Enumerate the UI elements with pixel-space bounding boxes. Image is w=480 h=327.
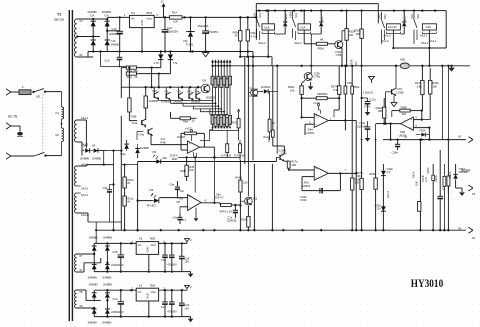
wire zener drop2	[158, 74, 160, 88]
svg-text:4700: 4700	[364, 104, 370, 108]
label C10B	[421, 175, 428, 182]
svg-text:SA2-3: SA2-3	[258, 41, 266, 45]
AC IN label	[8, 115, 18, 119]
resistor bank wires	[211, 60, 231, 116]
resistor R44A	[246, 16, 257, 56]
svg-text:2200/25V: 2200/25V	[167, 30, 178, 34]
vertical bus 244	[244, 57, 246, 164]
svg-text:1K: 1K	[127, 200, 130, 204]
svg-text:SA2: SA2	[377, 14, 381, 19]
svg-text:SA2-3: SA2-3	[294, 41, 302, 45]
svg-text:2N3055: 2N3055	[206, 96, 216, 100]
svg-text:GND: GND	[145, 247, 149, 253]
transistor Y30 2N3055	[149, 87, 159, 103]
diode D-K4A	[400, 11, 407, 34]
svg-text:4/63/25V: 4/63/25V	[208, 30, 219, 34]
relay bracket 1	[258, 31, 274, 45]
ground C17A	[365, 110, 371, 116]
title HY3010	[411, 278, 444, 290]
diode Y63	[102, 255, 112, 280]
svg-text:08: 08	[80, 290, 83, 294]
diode Y8A	[80, 143, 90, 160]
resistor R39A	[354, 11, 363, 141]
capacitor C7A	[227, 205, 238, 223]
svg-text:R59A: R59A	[369, 172, 376, 176]
svg-text:R58A: R58A	[401, 105, 408, 109]
svg-text:TL431: TL431	[186, 43, 194, 47]
resistor R58A 44K	[400, 105, 410, 116]
ground C13A	[365, 136, 371, 142]
AC plug E	[6, 123, 20, 131]
wire Y14A em	[151, 135, 187, 145]
LED Y36 4F-LED	[138, 188, 160, 207]
resistor R24A	[235, 164, 248, 196]
wire R58A net	[392, 109, 423, 117]
svg-text:10K: 10K	[356, 32, 361, 36]
zener Y12A	[120, 140, 129, 156]
transistor Y29A CTM	[335, 41, 343, 57]
wire rail corner 253	[252, 52, 254, 161]
resistor R51A	[231, 109, 240, 140]
zener Y7A	[168, 50, 178, 73]
svg-text:2N3055: 2N3055	[161, 99, 171, 103]
wire K3A top	[303, 9, 305, 23]
switch S01b	[34, 152, 62, 156]
svg-text:57: 57	[80, 268, 83, 272]
svg-text:SA3-1: SA3-1	[421, 41, 429, 45]
svg-text:5: 5	[415, 116, 417, 120]
svg-text:Vout: Vout	[151, 290, 156, 294]
resistor R4A 2K	[126, 72, 138, 79]
svg-text:SA1-1: SA1-1	[81, 116, 89, 120]
svg-text:104: 104	[184, 260, 189, 264]
svg-text:C1368: C1368	[396, 90, 404, 94]
wire K5 gnd	[148, 255, 150, 273]
svg-text:SA3-1: SA3-1	[81, 193, 89, 197]
svg-text:10K: 10K	[356, 174, 361, 178]
diode Y60 2N4880	[89, 236, 99, 255]
primary winding W2	[56, 119, 64, 156]
wire U2B in bot	[413, 124, 430, 129]
svg-text:58: 58	[80, 304, 83, 308]
svg-text:2N3055: 2N3055	[149, 99, 159, 103]
svg-text:F: F	[22, 85, 24, 89]
svg-text:T30B: T30B	[130, 114, 136, 118]
wire rect out	[107, 16, 121, 31]
svg-text:2: 2	[157, 13, 159, 17]
capacitor C17A	[360, 76, 376, 110]
svg-text:R41A: R41A	[411, 171, 415, 178]
diode Y3A	[91, 18, 96, 45]
row1 bottom wire	[94, 270, 190, 272]
wire relay rail C	[393, 47, 446, 49]
svg-text:2N4880: 2N4880	[88, 10, 98, 14]
svg-text:1-K: 1-K	[386, 170, 390, 174]
wire U1A in+	[300, 116, 314, 118]
svg-text:2N4880: 2N4880	[102, 320, 112, 324]
ground U3	[194, 208, 199, 222]
diode D-K3A	[311, 11, 325, 34]
wire K2 gnd	[141, 28, 143, 53]
svg-text:2N4880: 2N4880	[89, 282, 99, 286]
resistor R47A 1.2K	[214, 203, 232, 214]
wire 429 drop	[428, 128, 430, 140]
svg-text:2K: 2K	[134, 75, 137, 79]
secondary winding SB1	[74, 116, 88, 147]
wire bank link	[200, 130, 239, 140]
svg-text:N2: N2	[56, 133, 60, 137]
svg-text:Y28A: Y28A	[289, 11, 293, 18]
svg-text:Vout: Vout	[151, 243, 156, 247]
svg-text:1: 1	[124, 13, 126, 17]
svg-text:C1368: C1368	[249, 94, 257, 98]
op-amp IC30A AMP	[170, 141, 200, 161]
opamp IC30A pins down	[194, 152, 197, 158]
svg-text:1: 1	[330, 116, 332, 120]
switch S01	[32, 89, 46, 99]
relay K3A	[298, 24, 311, 44]
svg-text:4-B1: 4-B1	[400, 58, 406, 62]
capacitor C15	[161, 243, 168, 272]
resistor R52A	[221, 140, 231, 158]
wire rect col1	[92, 19, 94, 53]
svg-text:3: 3	[190, 238, 192, 242]
svg-text:3/4A: 3/4A	[308, 128, 314, 132]
svg-text:R51A: R51A	[231, 121, 238, 125]
relay K2A	[262, 24, 275, 57]
relay bracket 4	[417, 30, 437, 43]
resistor bank row2 bodies	[211, 115, 232, 128]
svg-text:Y50A: Y50A	[419, 129, 426, 133]
wire SB1 taps	[77, 120, 87, 156]
svg-text:LM324: LM324	[306, 131, 314, 135]
svg-text:Vin: Vin	[138, 290, 142, 294]
svg-text:SA3-3: SA3-3	[420, 34, 428, 38]
svg-text:CTM: CTM	[336, 53, 342, 57]
svg-text:2200/2V: 2200/2V	[357, 124, 367, 128]
svg-text:Y20A: Y20A	[320, 16, 324, 23]
row1 top wire	[94, 242, 187, 244]
svg-text:6: 6	[415, 124, 417, 128]
zener Y13A	[135, 144, 149, 158]
diode Y61 2N4880	[103, 236, 113, 255]
svg-text:22000/25V: 22000/25V	[111, 310, 124, 314]
resistor R11A	[144, 86, 147, 117]
wire K2 in	[107, 16, 129, 18]
secondary winding SE1	[74, 290, 82, 308]
wire Y29A collector	[342, 31, 347, 41]
transformer T1 label	[54, 13, 65, 22]
svg-text:4.7K: 4.7K	[251, 35, 257, 39]
wire LED col	[136, 162, 138, 232]
row2 bottom wire	[94, 315, 190, 317]
wire SA1 bot to rail	[88, 52, 93, 58]
svg-text:SA3: SA3	[410, 14, 414, 19]
power arrow top	[161, 0, 166, 17]
svg-text:C15: C15	[161, 258, 166, 262]
wire Y21A collector	[273, 146, 285, 154]
capacitor C1C	[111, 290, 124, 318]
transistor Y31 2N3055	[161, 89, 171, 103]
rotated labels 352	[350, 59, 358, 66]
vertical bus 248	[247, 57, 249, 164]
svg-text:DCOUT: DCOUT	[461, 169, 471, 173]
ground Y27A	[391, 96, 397, 107]
svg-text:R1A: R1A	[172, 10, 177, 14]
svg-text:C73B: C73B	[313, 75, 320, 79]
svg-text:29A: 29A	[162, 156, 167, 160]
svg-text:Y4A: Y4A	[111, 39, 116, 43]
diode Y50B col	[453, 164, 468, 185]
svg-text:44K: 44K	[402, 112, 407, 116]
svg-text:Y36: Y36	[149, 188, 154, 192]
svg-text:6: 6	[205, 198, 207, 202]
wire top rail A drop right	[377, 4, 379, 24]
relay DC-ON	[383, 24, 400, 49]
wire Y21A base	[138, 157, 279, 161]
svg-text:LM324: LM324	[302, 184, 310, 188]
svg-text:Y10a: Y10a	[248, 86, 255, 90]
resistor R57A	[331, 66, 341, 98]
wire rect col2	[106, 18, 108, 52]
row1 ground	[188, 272, 194, 278]
svg-text:Y5a: Y5a	[183, 39, 188, 43]
diode Y4A 2N4880	[105, 39, 121, 46]
svg-text:−: −	[315, 176, 317, 180]
resistor R25A	[241, 206, 250, 231]
svg-text:10K: 10K	[349, 33, 354, 37]
transistor Y22A	[245, 196, 258, 205]
svg-text:K2: K2	[132, 11, 136, 15]
wire col 433	[426, 164, 434, 231]
potentiometer W2A	[180, 157, 194, 181]
wire R3A left down	[121, 68, 126, 98]
capacitor C20 01	[179, 290, 190, 316]
svg-text:2N4880: 2N4880	[88, 276, 98, 280]
svg-text:K4: K4	[472, 236, 476, 240]
svg-text:R6A: R6A	[183, 120, 188, 124]
op-amp U1A LM324	[306, 114, 328, 135]
svg-text:R50A: R50A	[318, 46, 325, 50]
svg-text:A0: A0	[458, 226, 462, 230]
svg-text:C4a: C4a	[169, 182, 174, 186]
wire Y21A emitter	[284, 160, 298, 170]
wire K2A top	[267, 9, 269, 23]
svg-text:−: −	[315, 123, 317, 127]
svg-text:10K: 10K	[189, 168, 194, 172]
wire row1 wind taps	[77, 253, 101, 272]
svg-text:2N4880: 2N4880	[92, 156, 102, 160]
transistor Y34 2N3055	[191, 90, 201, 104]
svg-text:2N4880: 2N4880	[102, 10, 112, 14]
svg-text:C1A: C1A	[104, 58, 109, 62]
plug OUT-	[458, 226, 476, 240]
transistor Y26 driver	[201, 79, 216, 100]
svg-text:Vin: Vin	[138, 243, 142, 247]
svg-text:10K: 10K	[414, 181, 418, 186]
svg-text:84: 84	[80, 53, 83, 57]
rail mid common	[88, 50, 253, 52]
transistor Y33 2N3055	[187, 90, 193, 100]
svg-text:Y33: Y33	[187, 90, 192, 94]
svg-text:C2A: C2A	[167, 26, 172, 30]
svg-text:SA3-1: SA3-1	[429, 39, 437, 43]
plug DCOUT-	[468, 185, 475, 196]
resistor R57B	[356, 140, 363, 232]
row2 supply arrow	[185, 285, 192, 290]
svg-text:Y35: Y35	[152, 150, 157, 154]
svg-text:07: 07	[80, 254, 83, 258]
diode Y65 2N4880	[103, 282, 113, 301]
svg-text:1.8K: 1.8K	[417, 84, 423, 88]
svg-text:HK: HK	[320, 38, 324, 42]
switch SA3 contacts	[410, 12, 420, 44]
capacitor C13A	[357, 121, 370, 136]
svg-text:3/4C: 3/4C	[304, 180, 310, 184]
LED Y35 4F-LED	[152, 150, 168, 164]
wire K2 out rail	[154, 13, 256, 18]
wire collectors up	[154, 87, 196, 94]
transformer T1 core	[69, 10, 72, 321]
resistor R35A	[429, 68, 440, 98]
wire SA1 bot tap	[77, 56, 94, 58]
svg-text:1/4B: 1/4B	[400, 130, 406, 134]
svg-text:4.7R: 4.7R	[154, 61, 160, 65]
wire Y29A emitter	[341, 48, 343, 67]
svg-text:10K: 10K	[432, 84, 437, 88]
svg-text:10n: 10n	[180, 189, 185, 193]
svg-text:1072M: 1072M	[177, 135, 185, 139]
capacitor C3A	[198, 17, 219, 47]
svg-text:+VCC: +VCC	[313, 101, 320, 105]
svg-text:2N4004: 2N4004	[284, 13, 288, 23]
svg-text:22000/25V: 22000/25V	[111, 263, 124, 267]
svg-text:R2a: R2a	[263, 135, 268, 139]
resistor R12A	[123, 163, 134, 230]
svg-text:0.1: 0.1	[182, 218, 186, 222]
opamp IC30A out	[204, 147, 215, 158]
wire rail C drop	[445, 11, 447, 48]
svg-text:2N4880: 2N4880	[89, 236, 99, 240]
svg-text:SA1-3: SA1-3	[381, 39, 389, 43]
capacitor C1B	[111, 243, 124, 272]
vertical bus 254	[253, 164, 255, 230]
resistor R56A	[316, 92, 328, 100]
svg-text:−: −	[189, 149, 191, 153]
vertical bus 272	[267, 66, 277, 230]
wire R56A net	[300, 97, 340, 99]
svg-text:100-4.7: 100-4.7	[215, 196, 224, 200]
svg-text:7805: 7805	[149, 237, 155, 241]
svg-text:2K: 2K	[127, 181, 130, 185]
wire feedback 422	[421, 111, 423, 121]
capacitor C19 47u	[167, 290, 177, 318]
svg-text:T1: T1	[57, 13, 61, 17]
capacitor C2A 2200/25V	[162, 17, 179, 52]
svg-text:N1: N1	[56, 111, 60, 115]
wire opamp vdd	[194, 157, 196, 192]
svg-text:C14a: C14a	[392, 151, 399, 155]
wire R47A out	[220, 203, 240, 206]
diode Y1A 2N4880	[88, 10, 98, 26]
wire Y22 base	[240, 200, 244, 202]
svg-text:2N4880: 2N4880	[111, 42, 121, 46]
secondary winding SA1	[75, 19, 83, 57]
wire top rail B	[256, 9, 446, 11]
wire SA1 mid tap	[76, 35, 100, 37]
capacitor C14A	[392, 140, 401, 155]
wire U3 in-	[180, 207, 188, 214]
resistor R59A	[369, 124, 377, 232]
regulator K5 7805	[132, 237, 165, 255]
wire Y10A links	[248, 91, 263, 92]
zener Y39A	[381, 164, 393, 231]
ground arrow mid	[308, 82, 314, 90]
opamp U1A vcc stub	[313, 101, 320, 114]
primary winding W1	[56, 92, 64, 119]
svg-text:+VCC: +VCC	[185, 127, 192, 131]
svg-text:1W: 1W	[227, 153, 231, 157]
relay bracket 2	[294, 31, 310, 45]
wire U1A out right	[345, 120, 356, 122]
svg-text:Y1A: Y1A	[90, 13, 95, 17]
svg-text:Y12a: Y12a	[131, 121, 138, 125]
svg-text:C4B: C4B	[347, 81, 352, 85]
svg-text:C9a: C9a	[103, 186, 108, 190]
transistor Y23A C73B	[304, 34, 320, 81]
svg-text:HY3010: HY3010	[411, 278, 444, 290]
op-amp U3 servo	[176, 193, 224, 211]
rail collectors	[121, 86, 209, 88]
svg-text:K5: K5	[139, 237, 143, 241]
svg-text:GND: GND	[140, 20, 144, 26]
ground AC earth	[17, 132, 23, 136]
DCOUT label	[461, 169, 471, 173]
svg-text:SA1-2: SA1-2	[386, 190, 390, 198]
svg-text:C1A: C1A	[112, 27, 117, 31]
svg-text:K3: K3	[139, 283, 143, 287]
svg-text:7: 7	[345, 168, 347, 172]
switch SA2-2 contacts	[289, 11, 298, 38]
transistor T30B Y12A	[130, 114, 146, 126]
svg-text:104: 104	[184, 306, 189, 310]
diode Y62	[88, 255, 98, 280]
wire U1A fb	[334, 98, 339, 117]
wire U2B out down	[389, 124, 391, 141]
resistor R3A 750	[126, 66, 138, 73]
capacitor C30A col	[434, 150, 445, 231]
resistor R30B col	[443, 140, 452, 232]
capacitor C17 01	[179, 243, 190, 271]
svg-text:DB-230: DB-230	[54, 18, 65, 22]
svg-text:K3: K3	[472, 192, 476, 196]
svg-text:R47A: R47A	[220, 209, 227, 213]
svg-text:2N4880: 2N4880	[102, 276, 112, 280]
svg-text:−: −	[189, 206, 191, 210]
wire U1C out	[328, 168, 357, 174]
resistor R53A	[234, 140, 244, 160]
svg-text:Vin: Vin	[131, 17, 135, 21]
svg-text:R8a: R8a	[354, 85, 359, 89]
diode Y66	[88, 307, 98, 325]
switch linkage dashed	[42, 94, 44, 152]
resistor R20A	[263, 110, 275, 140]
svg-text:2N4880: 2N4880	[103, 282, 113, 286]
row2 top wire	[94, 289, 187, 291]
svg-text:OP: OP	[176, 200, 180, 204]
wire top net 164	[121, 164, 137, 166]
transistor Y14A	[138, 128, 153, 136]
